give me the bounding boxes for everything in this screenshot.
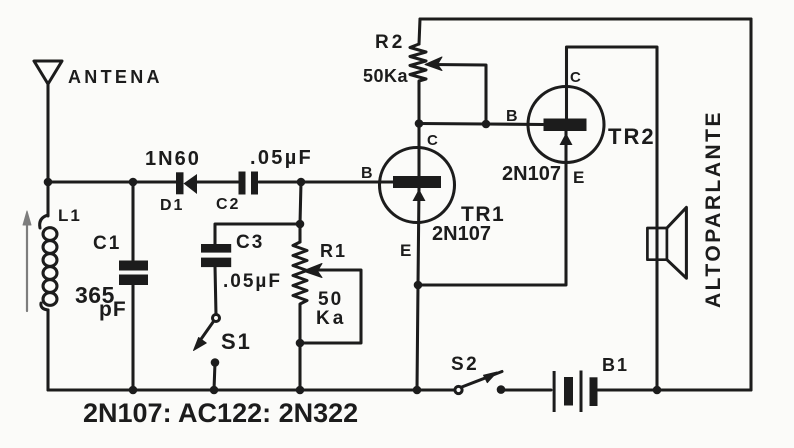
svg-text:.05µF: .05µF — [223, 271, 282, 292]
wire R2 top lead — [419, 19, 420, 44]
junction node R1 wiper — [296, 339, 305, 348]
svg-text:50Ka: 50Ka — [363, 66, 409, 86]
antenna — [34, 61, 62, 84]
svg-text:ALTOPARLANTE: ALTOPARLANTE — [702, 110, 725, 308]
wire C1 upper lead — [131, 182, 134, 261]
wire D1 to C2 — [197, 180, 238, 183]
wire main node to D1 — [48, 180, 176, 183]
wire C2 to TR1 base — [259, 180, 394, 183]
svg-text:TR2: TR2 — [608, 124, 656, 149]
junction node emitters — [414, 281, 423, 290]
R1 wiper arrowhead — [303, 264, 322, 278]
switch S2 — [455, 372, 505, 394]
svg-text:B: B — [506, 108, 520, 125]
svg-text:ANTENA: ANTENA — [68, 67, 163, 87]
svg-text:R1: R1 — [320, 241, 347, 261]
bottom rail S2 to battery — [501, 388, 551, 391]
transistor TR1 — [380, 148, 455, 223]
inductor L1 — [40, 215, 57, 310]
junction node R1 bottom — [296, 386, 305, 395]
bottom rail battery to right — [598, 388, 751, 391]
svg-text:2N107: AC122: 2N322: 2N107: AC122: 2N322 — [83, 398, 358, 428]
wire C1 lower lead — [131, 284, 134, 390]
junction node C1 top — [129, 178, 138, 187]
svg-text:Ka: Ka — [316, 308, 346, 329]
wire TR1 collector — [417, 124, 420, 177]
tuning arrow — [23, 211, 31, 311]
svg-text:2N107: 2N107 — [432, 223, 491, 245]
wire C3 branch top — [215, 224, 300, 244]
svg-text:B: B — [361, 165, 375, 182]
resistor R2 — [410, 44, 426, 84]
R2 wiper arrowhead — [425, 57, 442, 71]
wire TR2 base bus — [419, 124, 543, 125]
svg-text:S1: S1 — [221, 329, 252, 354]
wire emitter junction to bottom — [417, 285, 418, 390]
junction node antenna/L1 — [44, 178, 53, 187]
wire S1 to bottom rail — [214, 363, 215, 391]
wire left rail upper — [46, 182, 49, 216]
capacitor C1 — [119, 261, 148, 286]
wire R2 wiper — [432, 65, 486, 125]
svg-text:C3: C3 — [236, 232, 264, 253]
svg-text:50: 50 — [318, 289, 343, 310]
bottom rail left of S2 — [48, 388, 454, 391]
svg-text:R2: R2 — [375, 32, 405, 53]
svg-text:pF: pF — [99, 298, 127, 321]
svg-text:L1: L1 — [58, 206, 82, 225]
svg-text:C: C — [570, 69, 583, 86]
wire R1 bottom lead — [298, 307, 301, 390]
wire R1 top lead — [298, 224, 301, 242]
junction node TR1 collector — [415, 119, 424, 128]
diode D1 — [176, 172, 197, 194]
capacitor C3 — [201, 244, 231, 267]
wire R1 wiper loop — [300, 270, 361, 343]
capacitor C2 — [239, 172, 259, 195]
wire R2 bottom lead — [417, 84, 420, 124]
svg-text:2N107: 2N107 — [502, 163, 561, 185]
wire left rail lower — [46, 310, 49, 390]
junction node speaker/battery — [653, 386, 662, 395]
right rail — [749, 19, 752, 390]
wire antenna lead — [46, 84, 49, 182]
svg-text:D1: D1 — [160, 197, 184, 214]
wire TR2 emitter — [418, 131, 566, 285]
junction node R2 wiper — [482, 120, 491, 129]
junction node detector — [297, 178, 306, 187]
svg-text:B1: B1 — [602, 355, 629, 375]
wire C3 to S1 — [215, 266, 216, 315]
wire TR1 emitter — [418, 188, 419, 285]
svg-text:C: C — [427, 132, 440, 149]
svg-text:.05µF: .05µF — [250, 147, 313, 169]
top rail — [420, 17, 751, 20]
wire TR2 collector to speaker feed — [567, 47, 658, 390]
switch S1 — [194, 315, 220, 367]
speaker — [647, 207, 686, 278]
svg-text:1N60: 1N60 — [145, 148, 201, 170]
battery B1 — [553, 371, 598, 413]
svg-text:C1: C1 — [93, 233, 121, 254]
svg-text:E: E — [573, 168, 586, 187]
transistor TR2 — [528, 87, 604, 163]
svg-text:C2: C2 — [216, 196, 240, 213]
wire detector node down — [300, 182, 301, 224]
svg-text:S2: S2 — [451, 354, 479, 375]
junction node S1 bottom — [210, 386, 219, 395]
junction node C1 bottom — [129, 386, 138, 395]
svg-text:E: E — [400, 241, 413, 260]
junction node emitter rail — [413, 386, 422, 395]
junction node C3/R1 — [296, 220, 305, 229]
resistor R1 — [293, 242, 307, 307]
